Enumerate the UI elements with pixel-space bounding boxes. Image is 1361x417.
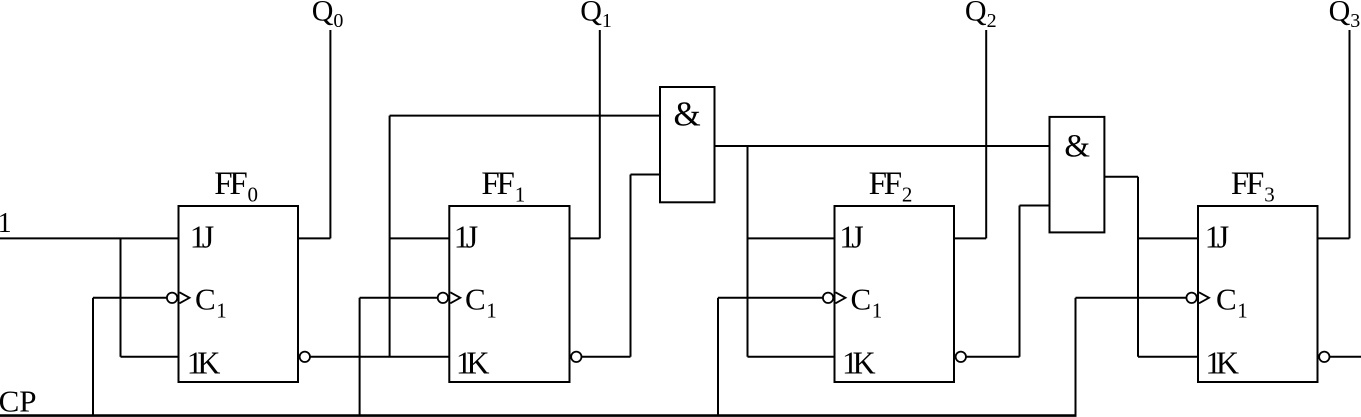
wire: riser to AND1 input B [630,175,632,357]
svg-text:FF2: FF2 [869,166,913,207]
svg-text:1J: 1J [454,219,478,255]
svg-text:CP: CP [0,383,37,417]
wire: Q1 vertical riser [599,30,601,238]
wire: FF0 Qbar to FF1 1K [310,356,449,358]
FF0 Qbar output bubble [300,352,310,362]
svg-text:Q3: Q3 [1329,0,1361,32]
svg-text:1K: 1K [842,344,876,380]
wire: Q2 vertical riser [985,30,987,238]
FF1 edge-trigger wedge [450,292,460,303]
FF3 clock inversion bubble [1186,293,1196,303]
wire: FF3 C1 input [1076,297,1188,299]
wire: AND2 output riser down [1137,177,1139,357]
svg-text:1: 1 [0,208,12,239]
svg-text:&: & [1064,129,1090,165]
wire: FF2 C1 input [718,297,824,299]
wire: AND1 input B [631,174,661,176]
flip-flop FF1 box [449,206,569,382]
svg-text:Q1: Q1 [580,0,612,32]
svg-text:C1: C1 [851,281,883,322]
wire: input 1 to FF0 1J [0,237,179,239]
wire: AND1 output riser down [747,146,749,357]
FF3 edge-trigger wedge [1199,292,1209,303]
svg-text:C1: C1 [195,281,227,322]
wire: FF1 clock riser from CP bus [359,298,361,416]
wire: FF3 clock riser from CP bus [1075,298,1077,416]
wire: AND2 output [1104,176,1138,178]
wire: AND1 input A [390,115,660,117]
wire: FF3 Q output to Q3 [1318,237,1350,239]
wire: FF0 output riser (to FF1 1J and AND1) [389,116,391,357]
svg-text:1J: 1J [190,219,214,255]
FF0 edge-trigger wedge [180,292,190,303]
wire: AND1 output to AND2 input A [715,145,1050,147]
wire: FF2 Q output to Q2 [954,237,986,239]
wire: FF1 Q output to Q1 [570,237,600,239]
FF3 Qbar output bubble [1319,352,1329,362]
FF0 clock inversion bubble [167,293,177,303]
wire: Q3 vertical riser [1349,30,1351,238]
FF1 clock inversion bubble [438,293,448,303]
FF2 edge-trigger wedge [836,292,846,303]
AND gate G2 box [1050,117,1105,232]
wire: FF2 1K input [748,356,835,358]
flip-flop FF2 box [835,206,955,382]
wire: FF3 1K input [1138,356,1198,358]
wire: branch down to FF0 1K [120,238,122,356]
wire: FF0 C1 input [93,297,168,299]
wire: FF3 1J input [1138,237,1198,239]
wire: riser to AND2 input B [1019,206,1021,357]
flip-flop FF0 box [179,206,299,382]
wire: CP bus [0,414,1077,417]
svg-text:&: & [674,95,701,134]
wire: FF2 clock riser from CP bus [717,298,719,416]
wire: FF0 clock riser from CP bus [92,298,94,416]
svg-text:1K: 1K [1205,344,1239,380]
AND gate G1 box [660,87,715,202]
wire: FF0 1K input [121,356,179,358]
FF2 Qbar output bubble [956,352,966,362]
wire: FF1 1J input [390,237,450,239]
flip-flop FF3 box [1198,206,1318,382]
svg-text:1K: 1K [187,344,221,380]
FF2 clock inversion bubble [823,293,833,303]
svg-text:1J: 1J [1205,219,1229,255]
wire: FF2 Qbar output [966,356,1020,358]
wire: FF0 Q output to Q0 [298,237,330,239]
wire: Q0 vertical riser [329,30,331,238]
svg-text:FF3: FF3 [1231,166,1275,207]
svg-text:C1: C1 [465,281,497,322]
wire: AND2 input B [1020,205,1050,207]
svg-text:1K: 1K [456,344,490,380]
wire: FF3 Qbar output to edge [1330,356,1361,358]
wire: FF1 Qbar output [582,356,631,358]
wire: FF2 1J input [748,237,835,239]
svg-text:FF0: FF0 [214,166,258,207]
svg-text:FF1: FF1 [481,166,525,207]
svg-text:C1: C1 [1216,281,1248,322]
FF1 Qbar output bubble [571,352,581,362]
svg-text:Q0: Q0 [312,0,344,32]
wire: FF1 C1 input [360,297,439,299]
svg-text:Q2: Q2 [965,0,997,32]
svg-text:1J: 1J [839,219,863,255]
